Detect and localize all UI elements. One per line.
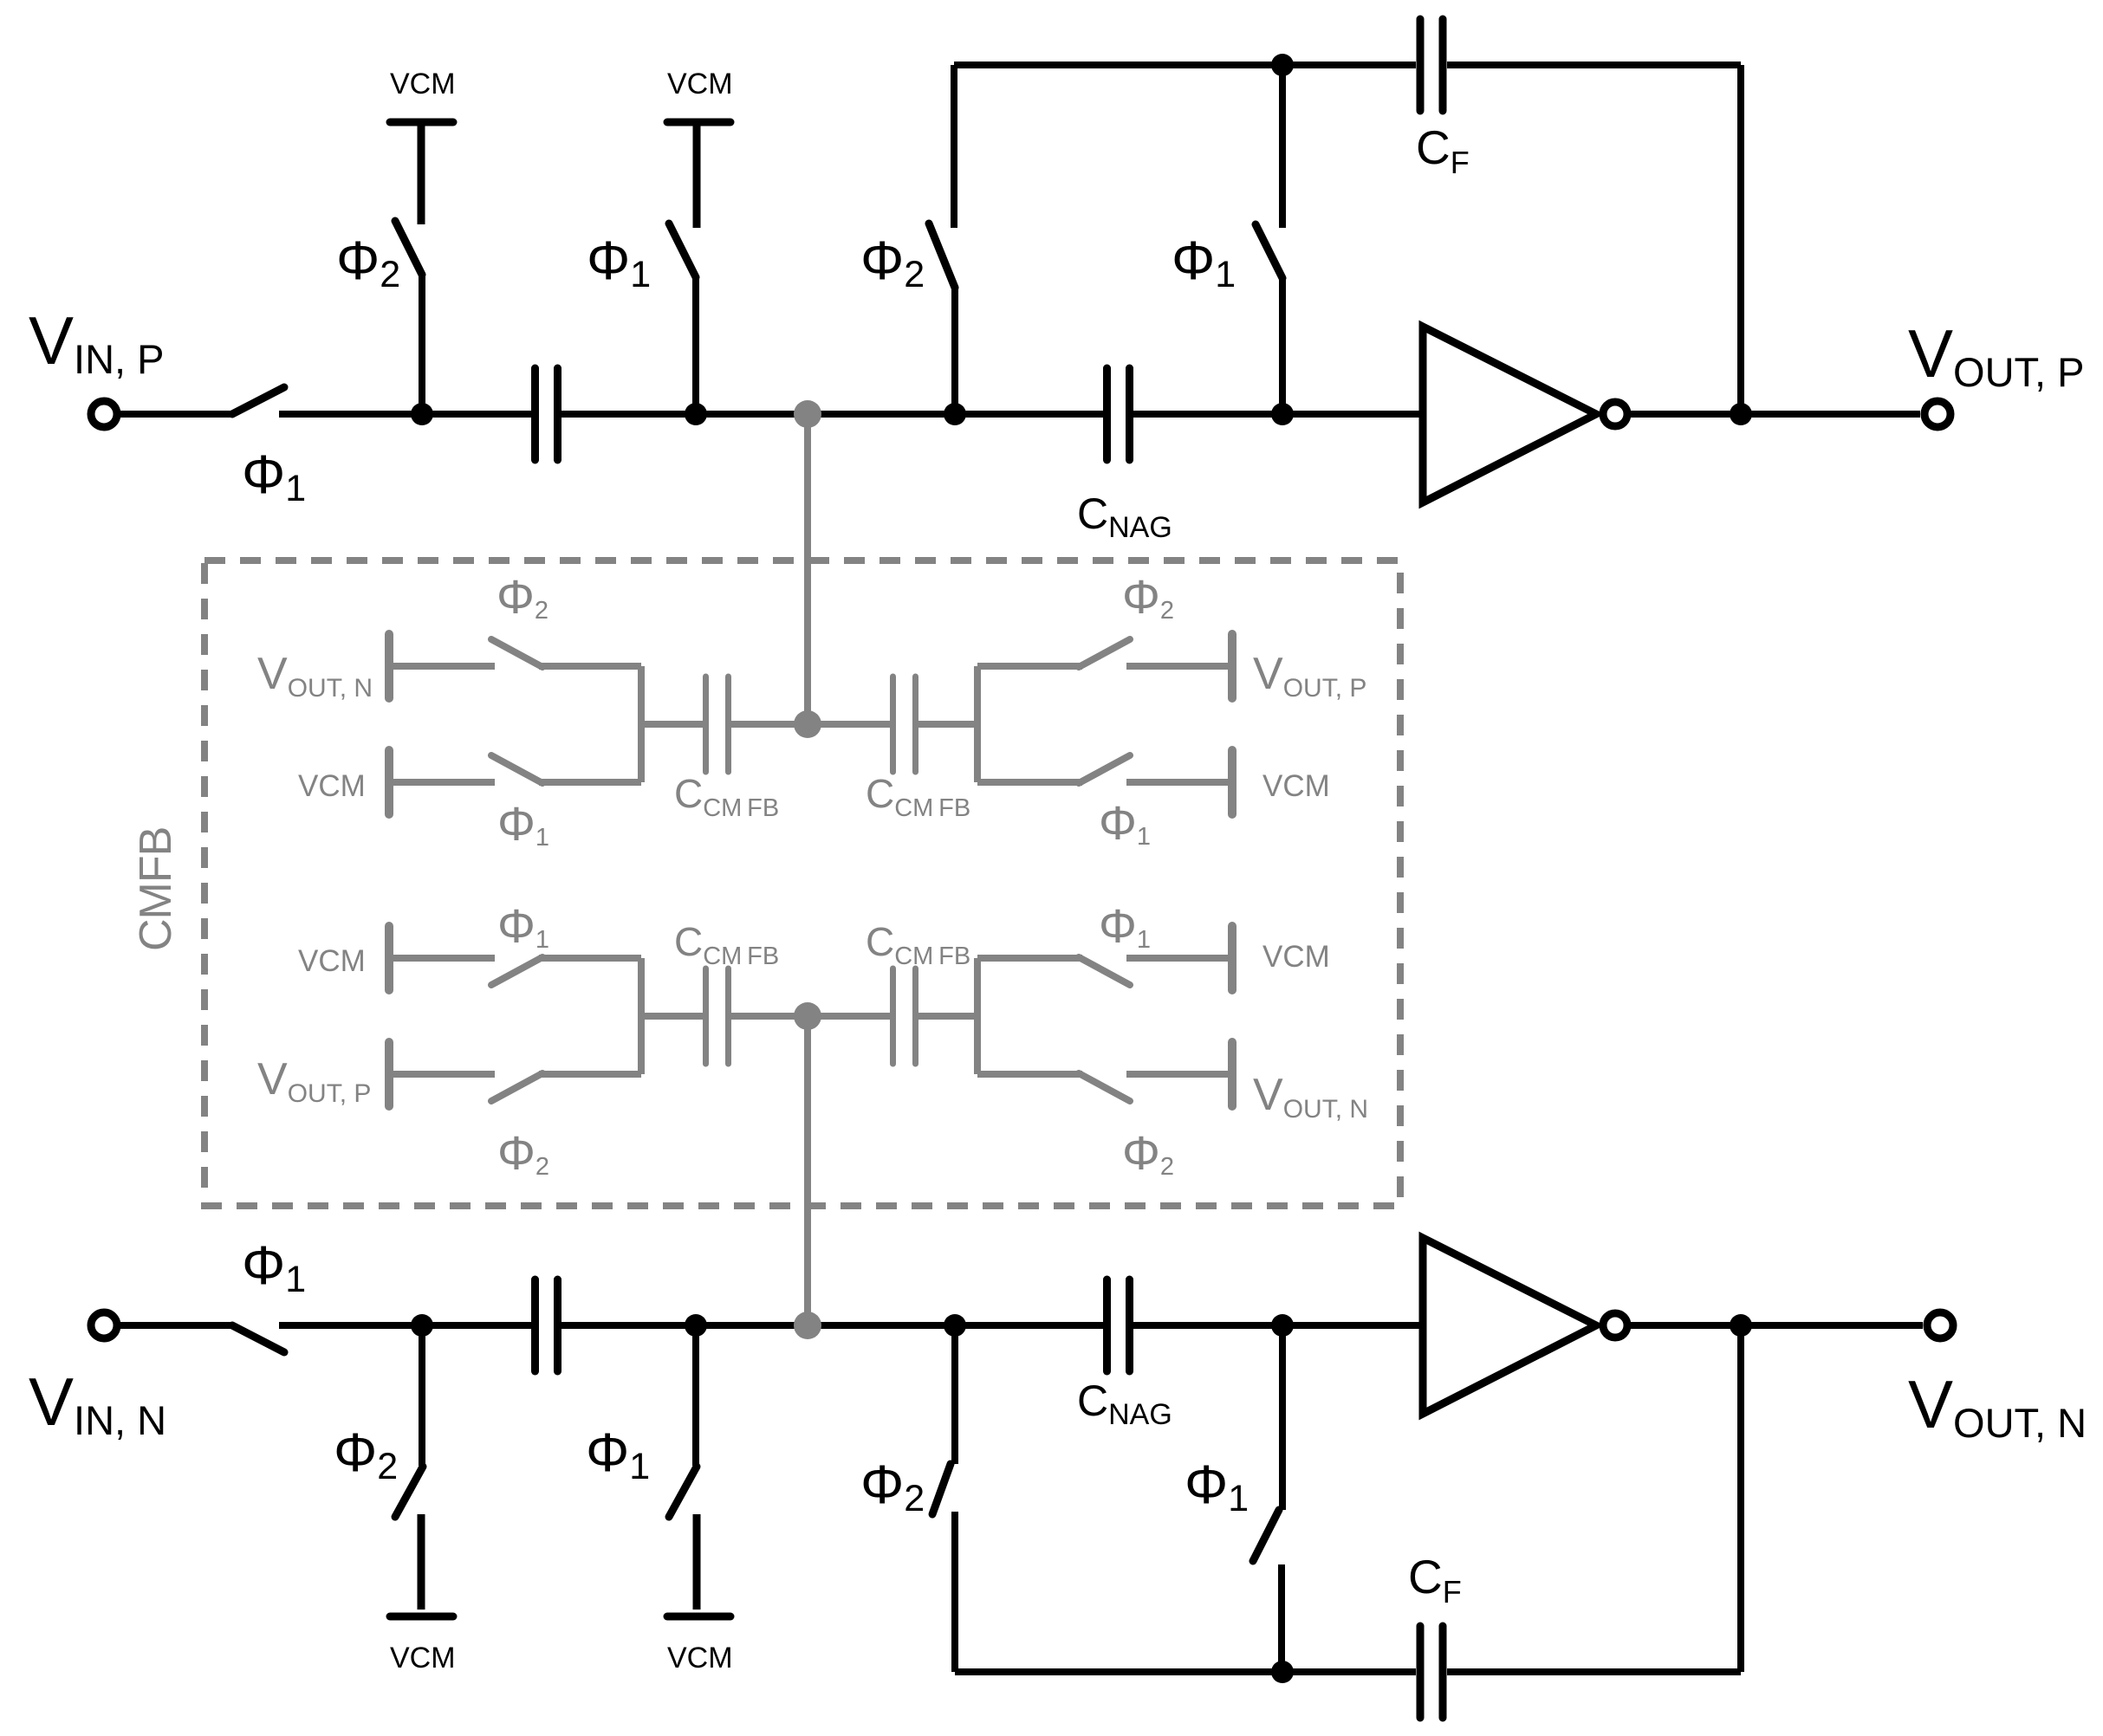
switch PHI2 blade (CMFB left upper) [491, 639, 542, 667]
node B (P summing node) [685, 403, 707, 425]
capacitor CF (N feedback cap) [1417, 1626, 1425, 1718]
node D (P feedback sampling node) [944, 403, 966, 425]
wire cap to center node (upper left) [731, 721, 808, 728]
fork vertical (left) [638, 958, 645, 1074]
node F2 (amp A2 input node) [1271, 1314, 1294, 1337]
wire terminal to switch (right lower arm) [1126, 779, 1232, 786]
wire CNAG to amplifier A2 [1133, 1322, 1423, 1329]
wire center node to cap (upper right) [808, 721, 890, 728]
wire capacitor to fork (right) [918, 1013, 981, 1020]
wire CNAG to amplifier A1 [1133, 411, 1423, 418]
switch PHI1 (series input switch, N path) [232, 1325, 284, 1352]
switch PHI2 blade (CMFB right lower) [1079, 1073, 1130, 1101]
svg-text:VCM: VCM [390, 68, 456, 100]
switch PHI2 blade (CMFB left lower) [491, 1073, 542, 1101]
switch PHI1 (amp input connect, N path) [1253, 1510, 1279, 1561]
switch PHI2 (feedback sample, P path) [929, 223, 955, 288]
node E (top rail junction) [1271, 54, 1294, 76]
node G (P output feedback tap) [1730, 403, 1752, 425]
switch PHI1 blade (CMFB right lower) [1079, 755, 1130, 783]
capacitor C1P (input sampling cap) [531, 368, 539, 460]
node E2 (bottom rail junction) [1271, 1661, 1294, 1683]
wire gray CMFB link (top) [804, 414, 811, 724]
capacitor CCMFB (lower right) [890, 968, 896, 1064]
op-amp A2 (inverting amplifier, N path) [1423, 1238, 1596, 1414]
wire switch to fork corner (left upper arm) [539, 955, 641, 962]
node G2 (N output feedback tap) [1730, 1314, 1752, 1337]
wire A1 output to terminal VOUT,P [1627, 411, 1920, 418]
switch PHI2 (feedback sample, N path) [932, 1464, 951, 1514]
terminal bar (right, upper arm) [1228, 926, 1236, 990]
wire VIN,N terminal to switch [117, 1322, 232, 1329]
svg-text:VCM: VCM [298, 769, 366, 803]
wire node D up to switch PHI2 [951, 288, 958, 414]
wire terminal to switch (right lower arm) [1126, 1071, 1232, 1078]
capacitor CNAG (N path) [1103, 1279, 1111, 1371]
node A2 (N sampling node) [411, 1314, 433, 1337]
node B2 (N summing node) [685, 1314, 707, 1337]
wire A2 output to terminal VOUT,N [1627, 1322, 1923, 1329]
node D2 (N feedback sampling node) [944, 1314, 966, 1337]
inversion bubble of A1 [1603, 402, 1627, 426]
wire terminal to switch (right upper arm) [1126, 663, 1232, 670]
wire node A2 down to VCM switch PHI2 [419, 1325, 425, 1466]
terminal bar (left, lower arm) [385, 1042, 393, 1106]
switch PHI1 blade (CMFB left lower) [491, 755, 542, 783]
terminal bar (right, lower arm) [1228, 1042, 1236, 1106]
capacitor CNAG (P path) [1103, 368, 1111, 460]
svg-text:VCM: VCM [667, 68, 733, 100]
switch PHI1 (series input switch, P path) [232, 387, 284, 414]
svg-text:CMFB: CMFB [131, 827, 181, 951]
wire node B2 down to VCM switch PHI1 [692, 1325, 699, 1466]
svg-text:VCM: VCM [1262, 769, 1330, 803]
switch PHI2 (VCM reset, P input side) [395, 221, 422, 275]
terminal bar (right, upper arm) [1228, 634, 1236, 698]
capacitor C1N (input sampling cap) [531, 1279, 539, 1371]
wire cap to center node (lower left) [731, 1013, 808, 1020]
wire C1P to node B [561, 411, 1103, 418]
wire input switch to capacitor C1P [279, 411, 531, 418]
op-amp A1 (inverting amplifier, P path) [1423, 327, 1596, 502]
output terminal VOUT,N [1927, 1312, 1953, 1338]
wire PHI2 switch down to bottom feedback rail [951, 1512, 958, 1672]
fork vertical (right) [974, 666, 981, 782]
wire terminal to switch (right upper arm) [1126, 955, 1232, 962]
wire node B up to VCM switch PHI1 [692, 277, 699, 414]
wire fork corner to switch (right lower arm) [977, 1071, 1082, 1078]
wire terminal to switch (left lower arm) [389, 1071, 495, 1078]
wire input switch to capacitor C1N [279, 1322, 531, 1329]
svg-text:VCM: VCM [390, 1642, 456, 1674]
wire fork corner to switch (right upper arm) [977, 955, 1082, 962]
capacitor CF (P feedback cap) [1417, 19, 1425, 111]
switch PHI2 blade (CMFB right upper) [1079, 639, 1130, 667]
svg-text:VCM: VCM [1262, 940, 1330, 974]
wire fork corner to switch (right upper arm) [977, 663, 1082, 670]
node C (gray junction to CMFB, top) [794, 400, 821, 428]
terminal bar (left, upper arm) [385, 634, 393, 698]
capacitor CCMFB (lower left) [703, 968, 709, 1064]
bottom feedback rail right segment [1447, 1668, 1741, 1675]
switch PHI1 (amp input connect, P path) [1256, 224, 1282, 278]
VCM supply bar (bottom middle) [667, 1613, 730, 1621]
node CMFB upper center [794, 710, 821, 738]
output terminal VOUT,P [1925, 401, 1950, 427]
VCM supply bar (top middle) [667, 119, 730, 126]
capacitor CCMFB (upper right) [890, 677, 896, 772]
wire node A up to VCM switch PHI2 [419, 275, 425, 414]
wire feedback vertical (N, right) [1737, 1325, 1744, 1672]
terminal bar (left, lower arm) [385, 750, 393, 814]
fork vertical (right) [974, 958, 981, 1074]
wire fork corner to switch (right lower arm) [977, 779, 1082, 786]
wire node E down to switch PHI1 [1279, 65, 1286, 228]
wire fork to capacitor (left) [638, 721, 703, 728]
wire center node to cap (lower right) [808, 1013, 890, 1020]
wire node E2 up to switch PHI1 [1278, 1564, 1285, 1672]
wire gray CMFB link (bottom) [804, 1016, 811, 1325]
node F (amp A1 input node) [1271, 403, 1294, 425]
VCM supply bar (bottom left) [390, 1613, 453, 1621]
switch PHI1 blade (CMFB left upper) [491, 957, 542, 985]
wire PHI1 switch up to node F2 [1279, 1325, 1286, 1510]
wire feedback vertical (P, right) [1737, 65, 1744, 414]
VCM supply bar (top left) [390, 119, 453, 126]
node A (P sampling node) [411, 403, 433, 425]
inversion bubble of A2 [1603, 1313, 1627, 1338]
wire C1N to node B2 [561, 1322, 1103, 1329]
switch PHI1 (VCM reset, P summing node) [669, 223, 696, 277]
wire PHI1 switch down to node F [1279, 278, 1286, 414]
switch PHI2 (VCM reset, N input side) [395, 1467, 423, 1517]
switch PHI1 blade (CMFB right upper) [1079, 957, 1130, 985]
wire PHI2 switch up to top feedback rail [951, 65, 957, 228]
switch PHI1 (VCM reset, N summing node) [669, 1467, 697, 1517]
top feedback rail left segment [954, 62, 1416, 68]
input terminal VIN,P [91, 401, 117, 427]
wire terminal to switch (left upper arm) [389, 955, 495, 962]
wire switch to fork corner (left lower arm) [539, 779, 641, 786]
CMFB dashed boundary box [204, 560, 1400, 1206]
wire node D2 down to switch PHI2 [951, 1325, 958, 1464]
input terminal VIN,N [91, 1312, 117, 1338]
wire terminal to switch (left lower arm) [389, 779, 495, 786]
node C2 (gray junction to CMFB, bottom) [794, 1312, 821, 1339]
fork vertical (left) [638, 666, 645, 782]
svg-text:VCM: VCM [298, 944, 366, 978]
wire terminal to switch (left upper arm) [389, 663, 495, 670]
terminal bar (left, upper arm) [385, 926, 393, 990]
wire switch to fork corner (left lower arm) [539, 1071, 641, 1078]
bottom feedback rail left segment [955, 1668, 1416, 1675]
wire switch to fork corner (left upper arm) [539, 663, 641, 670]
capacitor CCMFB (upper left) [703, 677, 709, 772]
wire capacitor to fork (right) [918, 721, 981, 728]
wire fork to capacitor (left) [638, 1013, 703, 1020]
node CMFB lower center [794, 1002, 821, 1030]
top feedback rail right segment [1447, 62, 1741, 68]
wire VIN,P terminal to switch [117, 411, 232, 418]
svg-text:VCM: VCM [667, 1642, 733, 1674]
terminal bar (right, lower arm) [1228, 750, 1236, 814]
